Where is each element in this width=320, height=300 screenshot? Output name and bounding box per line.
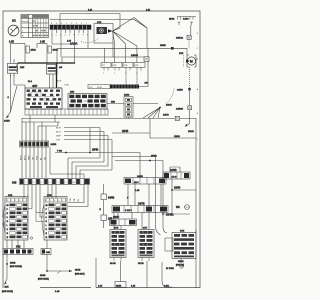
- connector 24B mid small lower: [101, 215, 113, 228]
- svg-text:1-35: 1-35: [135, 190, 140, 192]
- svg-text:M: M: [190, 59, 193, 63]
- svg-text:15/1: 15/1: [89, 87, 93, 89]
- svg-text:B: B: [7, 221, 9, 223]
- svg-text:24/1B: 24/1B: [97, 87, 102, 89]
- ignition switch SW 3/1: [8, 19, 19, 36]
- svg-text:1/15B: 1/15B: [4, 121, 10, 123]
- svg-text:7/2B: 7/2B: [135, 65, 139, 67]
- svg-text:1-35: 1-35: [40, 41, 45, 44]
- svg-text:4/87: 4/87: [32, 84, 38, 88]
- svg-text:25/4B: 25/4B: [188, 131, 194, 133]
- svg-text:8 1/2 3: 8 1/2 3: [125, 210, 132, 212]
- wire net y160 with junction: [112, 156, 180, 236]
- splice X 23/4B: [143, 89, 174, 119]
- border frame: [3, 11, 200, 288]
- connectors 7/x row: [101, 63, 145, 75]
- wires below connectors: [11, 77, 54, 113]
- svg-text:BL/R: BL/R: [56, 128, 61, 130]
- svg-text:7: 7: [78, 35, 80, 37]
- svg-text:23/4B: 23/4B: [174, 136, 180, 138]
- svg-text:1/16A: 1/16A: [31, 49, 37, 52]
- motor 17/9: [179, 53, 196, 67]
- strip 34B bottom-left: [3, 246, 33, 255]
- svg-text:C: C: [197, 48, 199, 50]
- svg-text:31/4B: 31/4B: [40, 275, 46, 277]
- svg-text:4: 4: [58, 200, 59, 202]
- svg-text:1: 1: [66, 23, 67, 25]
- svg-text:[RHD 31/4B]: [RHD 31/4B]: [38, 279, 49, 281]
- svg-text:1-35: 1-35: [98, 285, 103, 287]
- connector strip 29/2F: [110, 216, 137, 226]
- svg-text:T SR: T SR: [57, 151, 62, 153]
- fuse label 1/16A with dashed pointer: [70, 38, 99, 46]
- svg-text:24/3B: 24/3B: [51, 144, 57, 146]
- wire: 24/9B line: [177, 90, 183, 92]
- svg-text:31/5: 31/5: [5, 286, 10, 288]
- svg-text:25/9B: 25/9B: [174, 187, 181, 190]
- svg-text:1: 1: [7, 200, 8, 202]
- wire: net 25/9B long (y48): [57, 45, 187, 63]
- svg-text:25/4B: 25/4B: [122, 130, 129, 133]
- svg-text:0: 0: [46, 217, 47, 219]
- svg-text:4: 4: [41, 182, 42, 184]
- svg-text:4: 4: [65, 35, 67, 37]
- svg-text:0: 0: [7, 217, 8, 219]
- svg-text:L: L: [46, 225, 47, 227]
- svg-text:2: 2: [50, 200, 51, 202]
- connector 4/8: [47, 64, 63, 77]
- svg-text:34B: 34B: [46, 252, 50, 254]
- fuse F1 (1/16A) left: [9, 41, 36, 64]
- connector 2/26: [7, 63, 25, 76]
- wires between 24B and switches: [24, 185, 56, 222]
- svg-text:S: S: [8, 97, 10, 99]
- svg-text:2: 2: [61, 23, 62, 25]
- svg-text:2/4B: 2/4B: [70, 92, 75, 94]
- svg-text:7/15B: 7/15B: [64, 85, 70, 87]
- svg-text:S: S: [7, 229, 9, 231]
- svg-text:24B: 24B: [12, 182, 17, 185]
- svg-text:1/3B: 1/3B: [111, 102, 116, 104]
- svg-text:1/2 3: 1/2 3: [134, 182, 139, 184]
- svg-text:25/9B: 25/9B: [160, 45, 166, 47]
- headlamp switch SW2 2/79: [2, 195, 28, 240]
- central module 4/87: [25, 84, 62, 109]
- bottom rail and refs: [55, 282, 170, 293]
- svg-text:[RHD 23/41B]: [RHD 23/41B]: [10, 266, 22, 268]
- svg-text:8: 8: [83, 35, 85, 37]
- connector [34B]: [41, 249, 51, 255]
- wire: feed to connector 2/26: [11, 44, 15, 64]
- svg-text:H: H: [7, 233, 9, 235]
- svg-text:1: 1: [25, 182, 26, 184]
- label band 15/1: [88, 85, 110, 89]
- headlamp switch SW3 2/7B: [30, 195, 67, 240]
- connector 24/9B: [188, 88, 190, 106]
- svg-text:1-35: 1-35: [9, 41, 14, 44]
- wire 25/9B right lower with junction: [171, 179, 196, 203]
- svg-text:5: 5: [62, 200, 63, 202]
- svg-text:[RHD 31/1B]: [RHD 31/1B]: [2, 291, 13, 293]
- wires below switches to 34B: [7, 240, 47, 249]
- svg-text:F: F: [197, 139, 199, 141]
- svg-text:4: 4: [19, 200, 20, 202]
- svg-text:P: P: [7, 209, 9, 211]
- right border small labels: [197, 33, 199, 141]
- svg-text:7: 7: [57, 182, 58, 184]
- wire: net 23/4B long horizontal: [22, 115, 196, 289]
- svg-text:SB: SB: [74, 198, 76, 201]
- svg-text:B: B: [197, 59, 199, 61]
- svg-text:GR SB: GR SB: [138, 263, 144, 265]
- wires from 4/87 pins down-left: [22, 115, 60, 141]
- lamp 3/79 bottom right: [165, 231, 196, 267]
- svg-text:10: 10: [73, 182, 75, 184]
- svg-text:31/8A: 31/8A: [116, 284, 122, 287]
- svg-text:E: E: [197, 113, 199, 115]
- svg-text:24/9B: 24/9B: [177, 90, 183, 92]
- svg-text:23/4B: 23/4B: [166, 105, 172, 107]
- wire: top bus B (y19.5): [50, 14, 147, 29]
- svg-text:GR SB: GR SB: [110, 263, 116, 265]
- fan wires into relay 17/8: [104, 18, 147, 63]
- svg-text:8: 8: [61, 182, 62, 184]
- wire net 25/4B center: [55, 128, 140, 178]
- svg-text:3/77: 3/77: [143, 228, 148, 230]
- svg-text:Key po: Key po: [22, 21, 29, 23]
- svg-text:III: III: [22, 35, 24, 37]
- wire: motor feed from 25/9B: [189, 67, 191, 88]
- svg-text:4/8: 4/8: [59, 67, 63, 69]
- svg-text:GR: GR: [70, 198, 72, 202]
- connector strip 24/5B center: [124, 176, 166, 200]
- svg-text:1/2 3: 1/2 3: [172, 177, 178, 179]
- ground run 31/4B center-left: [38, 255, 85, 281]
- relay module 17/8: [94, 22, 113, 43]
- wires into 3/79 and 3/77: [114, 172, 166, 230]
- wires to bottom rail: [121, 261, 173, 288]
- connector strip 24/3B left: [20, 141, 57, 147]
- svg-text:31 4: 31 4: [28, 81, 33, 83]
- ground W8/2 upper: [172, 203, 190, 214]
- svg-text:H: H: [46, 233, 48, 235]
- svg-text:1/16A: 1/16A: [70, 42, 77, 46]
- svg-text:14/30: 14/30: [183, 19, 189, 21]
- svg-text:BL/R: BL/R: [57, 81, 62, 83]
- svg-text:BL/S: BL/S: [56, 132, 61, 134]
- svg-text:S: S: [46, 229, 48, 231]
- connector 7/15B labels: [57, 81, 70, 90]
- svg-text:15/1: 15/1: [84, 101, 87, 103]
- svg-text:2: 2: [11, 200, 12, 202]
- svg-text:17/9: 17/9: [179, 53, 184, 55]
- wires right of 2/7B: [68, 185, 88, 207]
- fuse F2 (1/16A) right: [37, 41, 58, 65]
- svg-text:P: P: [46, 209, 48, 211]
- svg-text:7/4B: 7/4B: [113, 65, 117, 67]
- svg-text:B: B: [46, 221, 48, 223]
- svg-text:31/4B: 31/4B: [75, 270, 81, 272]
- svg-text:24/13B: 24/13B: [176, 108, 183, 110]
- wire label column below 24/3B: [21, 155, 47, 160]
- connector column 24/4B: [124, 95, 133, 119]
- svg-text:24/3B: 24/3B: [170, 169, 177, 172]
- wire: net y57: [62, 43, 149, 87]
- svg-text:[RHD 31/7]: [RHD 31/7]: [75, 274, 85, 276]
- wire: y103 link: [107, 102, 158, 104]
- wire: net y44 x52-74: [52, 33, 88, 63]
- central unit connector row pins: [25, 109, 108, 115]
- svg-text:3: 3: [54, 200, 55, 202]
- svg-text:2: 2: [56, 35, 58, 37]
- connector strip 24/3B right: [163, 169, 190, 179]
- svg-text:5: 5: [23, 200, 24, 202]
- svg-text:2: 2: [29, 182, 30, 184]
- svg-text:3: 3: [81, 23, 82, 25]
- svg-text:I: I: [22, 26, 23, 28]
- svg-text:2/26: 2/26: [20, 67, 25, 69]
- connector 24/7B: [176, 106, 192, 124]
- svg-text:5: 5: [69, 35, 71, 37]
- svg-text:11: 11: [79, 182, 81, 184]
- svg-text:9: 9: [65, 182, 66, 184]
- svg-text:31 W8/2: 31 W8/2: [166, 268, 175, 270]
- svg-text:3: 3: [15, 200, 16, 202]
- lamp L2 3/77: [138, 228, 154, 266]
- svg-text:E: E: [100, 209, 102, 211]
- svg-text:1/16A: 1/16A: [53, 49, 59, 52]
- svg-text:6: 6: [49, 182, 50, 184]
- central connector cluster (dark): [68, 92, 107, 109]
- svg-text:A: A: [197, 88, 199, 91]
- wire: top bus A (y13.5): [60, 9, 151, 13]
- svg-text:23/4B: 23/4B: [10, 263, 16, 265]
- svg-text:3/79: 3/79: [114, 228, 119, 230]
- svg-text:58: 58: [46, 205, 48, 207]
- right riser: top refs 11/24 14/30: [169, 17, 196, 36]
- svg-text:D: D: [197, 33, 199, 35]
- svg-text:1: 1: [46, 200, 47, 202]
- connector 24/9B mid small: [100, 184, 115, 215]
- svg-text:7: 7: [86, 23, 87, 25]
- connector strip 24/7B long: [112, 203, 168, 213]
- svg-text:24/7B: 24/7B: [163, 115, 169, 117]
- svg-text:7/1B: 7/1B: [124, 65, 128, 67]
- svg-text:BL: BL: [78, 198, 80, 201]
- svg-text:L: L: [7, 225, 8, 227]
- lamp L1 3/79: [110, 228, 126, 266]
- svg-text:1-4B: 1-4B: [55, 291, 60, 293]
- svg-text:W8: W8: [176, 206, 180, 209]
- svg-text:R: R: [7, 213, 9, 215]
- svg-text:M: M: [7, 237, 9, 239]
- svg-text:5: 5: [71, 23, 72, 25]
- svg-text:3/79: 3/79: [180, 231, 185, 233]
- svg-text:25/4B: 25/4B: [92, 149, 99, 152]
- svg-text:6: 6: [56, 23, 57, 25]
- svg-text:1: 1: [103, 73, 104, 75]
- wires into right lamp: [163, 214, 196, 233]
- svg-text:24/13A: 24/13A: [176, 37, 183, 40]
- fan horizontals into 24B strip: [50, 147, 112, 178]
- svg-text:24/7B: 24/7B: [138, 203, 145, 206]
- svg-text:5: 5: [45, 182, 46, 184]
- svg-text:11/24: 11/24: [169, 19, 175, 21]
- junction 23/4B1: [162, 213, 190, 216]
- svg-text:SB/F: SB/F: [56, 136, 62, 138]
- connector strip 15/1 (dark): [50, 23, 91, 36]
- svg-text:3/1: 3/1: [12, 19, 16, 23]
- svg-text:II: II: [22, 31, 24, 33]
- ground W8/2 lower: [166, 259, 183, 271]
- off-page arrow 25/4B right: [185, 124, 194, 134]
- wires 24/3B to 24B: [22, 147, 46, 178]
- svg-text:58: 58: [7, 205, 9, 207]
- connector 24/13A upper: [176, 35, 191, 48]
- off-page arrow 1/15B: [4, 86, 17, 123]
- svg-text:1: 1: [114, 73, 115, 75]
- svg-text:24/4B: 24/4B: [124, 95, 130, 97]
- bold supply line 30: [18, 63, 76, 88]
- svg-text:3: 3: [33, 182, 34, 184]
- svg-text:34B: 34B: [16, 246, 21, 249]
- svg-text:7/17: 7/17: [102, 65, 106, 67]
- connector strip 24B wide: [12, 179, 90, 185]
- svg-text:24/10B: 24/10B: [131, 55, 138, 57]
- svg-text:R: R: [46, 213, 48, 215]
- ground run 23/4B bottom-left: [2, 255, 22, 293]
- svg-text:4: 4: [76, 23, 77, 25]
- wire color labels row 1: [56, 128, 112, 171]
- svg-text:24/9B: 24/9B: [108, 197, 115, 200]
- bus bar strip 1/8 (dark hatched): [110, 71, 148, 89]
- svg-text:T/W: T/W: [56, 140, 61, 142]
- svg-text:1-35: 1-35: [131, 285, 136, 287]
- svg-text:M: M: [46, 237, 48, 239]
- strip pins: [52, 30, 88, 33]
- ignition switch position table X1: [21, 15, 49, 38]
- wire net y133: [112, 130, 150, 133]
